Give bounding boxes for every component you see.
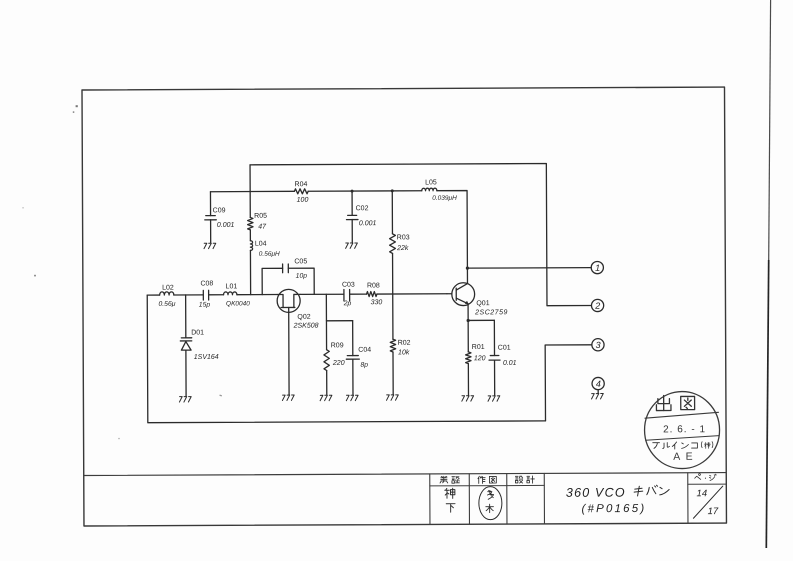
resistor R03 xyxy=(390,234,410,254)
svg-text:100: 100 xyxy=(297,197,309,204)
wire xyxy=(467,267,591,270)
svg-text:10k: 10k xyxy=(398,349,410,356)
wire xyxy=(597,390,599,394)
svg-text:QK0040: QK0040 xyxy=(226,300,250,307)
svg-text:8p: 8p xyxy=(360,362,368,369)
wire xyxy=(249,165,251,218)
terminal 3 xyxy=(592,339,604,351)
wire xyxy=(250,163,591,307)
svg-text:220: 220 xyxy=(332,360,345,367)
inductor L05 xyxy=(422,179,457,202)
junction xyxy=(351,190,354,193)
terminal 2 xyxy=(591,299,603,311)
wire xyxy=(237,294,277,296)
wire xyxy=(147,294,159,296)
wire xyxy=(209,294,224,296)
svg-text:3: 3 xyxy=(596,340,601,350)
wire xyxy=(308,190,422,193)
resistor R05 xyxy=(248,213,268,231)
svg-text:C08: C08 xyxy=(200,280,213,287)
wire xyxy=(545,345,592,421)
ground xyxy=(591,394,603,399)
resistor R04 xyxy=(294,181,308,204)
wire xyxy=(467,320,469,351)
svg-text:0.001: 0.001 xyxy=(217,222,235,229)
wire xyxy=(326,294,352,321)
svg-text:C09: C09 xyxy=(213,207,226,214)
svg-text:17: 17 xyxy=(708,506,719,517)
ground xyxy=(346,395,358,400)
wire xyxy=(350,293,367,295)
svg-text:1SV164: 1SV164 xyxy=(194,354,219,361)
svg-text:15p: 15p xyxy=(199,302,211,309)
junction xyxy=(466,267,469,270)
svg-text:(#P0165): (#P0165) xyxy=(581,503,646,515)
wire xyxy=(174,294,203,296)
svg-text:L05: L05 xyxy=(425,179,437,186)
svg-text:2SC2759: 2SC2759 xyxy=(474,309,508,316)
ground xyxy=(282,395,294,400)
wire xyxy=(377,293,447,295)
terminal 1 xyxy=(591,261,603,273)
wire xyxy=(392,352,394,395)
wire xyxy=(249,250,251,294)
wire xyxy=(466,268,468,283)
svg-text:2: 2 xyxy=(594,301,600,311)
svg-text:R09: R09 xyxy=(331,342,344,349)
wire xyxy=(447,293,452,295)
resistor R08 xyxy=(366,282,382,306)
svg-text:R02: R02 xyxy=(398,340,411,347)
capacitor C01 xyxy=(489,320,517,395)
wire xyxy=(437,191,468,269)
svg-text:R05: R05 xyxy=(254,213,267,220)
svg-text:C05: C05 xyxy=(294,258,307,265)
wire xyxy=(147,293,545,422)
svg-text:L01: L01 xyxy=(226,283,238,290)
svg-text:R01: R01 xyxy=(472,344,485,351)
capacitor C04 xyxy=(346,321,371,395)
capacitor C08 xyxy=(199,280,214,308)
svg-text:D01: D01 xyxy=(191,329,204,336)
capacitor C09 xyxy=(205,192,235,243)
svg-text:C04: C04 xyxy=(358,347,371,354)
ground xyxy=(204,243,216,248)
svg-text:2SK508: 2SK508 xyxy=(293,323,319,330)
svg-text:14: 14 xyxy=(697,488,708,499)
svg-text:A E: A E xyxy=(673,451,694,463)
terminal 4 xyxy=(592,377,604,389)
diode D01 xyxy=(180,295,219,397)
ground xyxy=(386,395,398,400)
svg-text:0.039μH: 0.039μH xyxy=(432,195,457,202)
wire xyxy=(392,294,394,339)
svg-text:C01: C01 xyxy=(498,345,511,352)
ground xyxy=(346,243,358,248)
ground xyxy=(462,396,474,401)
svg-text:R04: R04 xyxy=(294,181,307,188)
svg-text:0.56μ: 0.56μ xyxy=(158,301,175,308)
svg-text:4: 4 xyxy=(596,379,601,389)
junction xyxy=(391,189,394,192)
svg-text:Q01: Q01 xyxy=(476,300,489,307)
wire xyxy=(249,230,251,241)
wire xyxy=(210,190,294,192)
junction xyxy=(467,319,470,322)
ground xyxy=(320,395,332,400)
inductor L04 xyxy=(250,241,280,258)
svg-text:22k: 22k xyxy=(396,245,409,252)
svg-text:R08: R08 xyxy=(367,282,380,289)
resistor R02 xyxy=(390,339,411,356)
transistor Q01 xyxy=(452,283,508,317)
svg-text:Q02: Q02 xyxy=(297,314,310,321)
svg-text:47: 47 xyxy=(258,224,267,231)
svg-text:0.01: 0.01 xyxy=(503,360,517,367)
wire xyxy=(288,312,290,394)
wire xyxy=(392,253,394,294)
wire xyxy=(468,319,494,321)
svg-text:360 VCO: 360 VCO xyxy=(566,486,626,500)
resistor R01 xyxy=(466,344,486,364)
wire xyxy=(467,304,469,321)
svg-text:10p: 10p xyxy=(296,273,308,280)
svg-text:C02: C02 xyxy=(356,205,369,212)
svg-text:0.001: 0.001 xyxy=(359,220,377,227)
svg-text:120: 120 xyxy=(474,355,486,362)
svg-text:R03: R03 xyxy=(397,234,410,241)
inductor L02 xyxy=(158,285,175,308)
wire xyxy=(391,191,393,234)
svg-text:C03: C03 xyxy=(342,282,355,289)
wire xyxy=(300,293,344,295)
transistor Q02 xyxy=(277,289,319,329)
wire xyxy=(467,364,469,396)
ground xyxy=(488,396,500,401)
svg-text:330: 330 xyxy=(371,299,383,306)
svg-text:L02: L02 xyxy=(162,285,174,292)
ground xyxy=(179,397,191,402)
svg-text:2. 6. - 1: 2. 6. - 1 xyxy=(663,424,706,435)
svg-text:0.56μH: 0.56μH xyxy=(259,251,280,258)
svg-text:2p: 2p xyxy=(343,300,352,307)
svg-text:1: 1 xyxy=(595,263,600,273)
capacitor C03 xyxy=(342,282,355,308)
resistor R09 xyxy=(324,321,345,395)
capacitor C02 xyxy=(346,191,376,242)
capacitor C05 xyxy=(262,258,314,294)
svg-text:L04: L04 xyxy=(255,241,267,248)
inductor L01 xyxy=(223,283,250,307)
